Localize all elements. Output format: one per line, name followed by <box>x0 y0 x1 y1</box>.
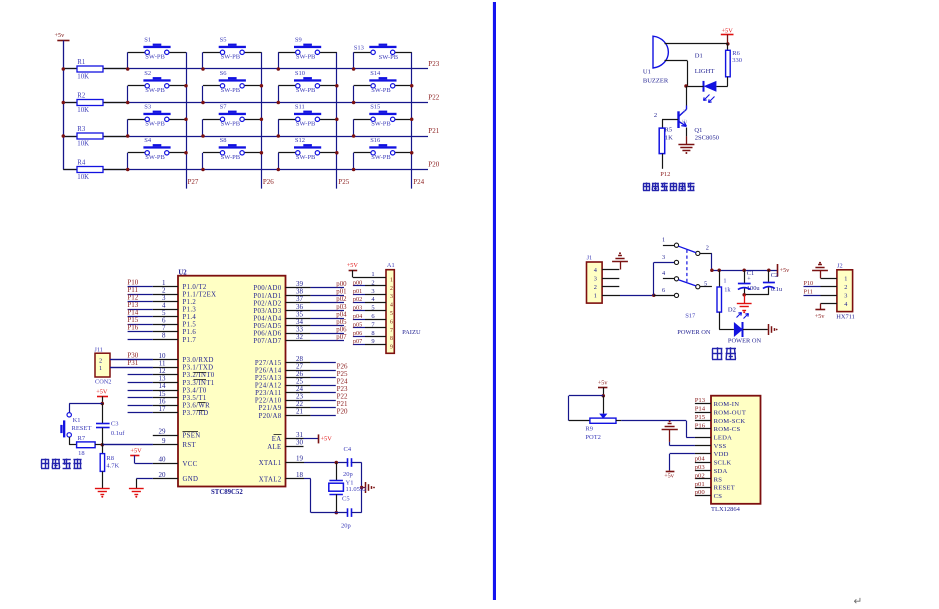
svg-text:SW-PB: SW-PB <box>371 121 391 128</box>
svg-text:S8: S8 <box>220 137 227 144</box>
svg-text:P10: P10 <box>804 280 814 287</box>
svg-text:S6: S6 <box>220 70 228 77</box>
svg-text:1: 1 <box>371 271 374 278</box>
svg-text:↵: ↵ <box>854 596 863 608</box>
svg-text:R1: R1 <box>77 59 85 66</box>
svg-text:C5: C5 <box>342 496 350 503</box>
svg-text:P16: P16 <box>695 422 706 429</box>
svg-text:SW-PB: SW-PB <box>296 54 316 61</box>
svg-text:LIGHT: LIGHT <box>695 68 715 75</box>
svg-text:1k: 1k <box>724 286 731 293</box>
svg-text:R3: R3 <box>77 126 86 133</box>
svg-text:0.1uf: 0.1uf <box>111 430 125 437</box>
svg-text:4.7K: 4.7K <box>106 463 119 470</box>
svg-text:2: 2 <box>594 284 597 291</box>
svg-text:30: 30 <box>296 439 304 447</box>
svg-text:R8: R8 <box>106 455 114 462</box>
svg-text:SW-PB: SW-PB <box>296 87 316 94</box>
svg-text:2: 2 <box>844 284 847 291</box>
svg-text:+5V: +5V <box>96 389 108 396</box>
svg-text:2: 2 <box>706 245 709 252</box>
svg-text:P14: P14 <box>695 406 706 413</box>
svg-text:SW-PB: SW-PB <box>371 87 391 94</box>
svg-text:POWER ON: POWER ON <box>728 338 762 345</box>
svg-text:p00: p00 <box>353 279 362 286</box>
svg-text:P03/AD3: P03/AD3 <box>253 308 281 315</box>
svg-text:p01: p01 <box>336 289 346 296</box>
svg-text:ROM-IN: ROM-IN <box>714 401 740 408</box>
svg-text:CS: CS <box>714 493 723 500</box>
svg-text:GND: GND <box>183 476 199 483</box>
svg-text:P31: P31 <box>127 359 138 367</box>
svg-text:+5V: +5V <box>130 448 142 455</box>
svg-text:21: 21 <box>296 408 304 416</box>
svg-text:ROM-CS: ROM-CS <box>714 426 741 433</box>
svg-text:S12: S12 <box>295 137 305 144</box>
svg-text:p03: p03 <box>695 464 706 471</box>
svg-text:LEDA: LEDA <box>714 435 733 442</box>
svg-text:SW-PB: SW-PB <box>296 154 316 161</box>
svg-text:9: 9 <box>162 437 166 445</box>
svg-text:P13: P13 <box>695 397 706 404</box>
svg-text:p05: p05 <box>336 319 347 326</box>
svg-text:P05/AD5: P05/AD5 <box>253 323 281 330</box>
svg-text:P04/AD4: P04/AD4 <box>253 315 281 322</box>
svg-text:K1: K1 <box>73 417 81 424</box>
svg-text:CON2: CON2 <box>95 378 111 385</box>
svg-text:p07: p07 <box>353 338 362 345</box>
svg-text:R2: R2 <box>77 92 86 99</box>
svg-text:P1.0/T2: P1.0/T2 <box>183 284 207 291</box>
svg-text:R4: R4 <box>77 159 86 166</box>
svg-text:29: 29 <box>159 428 167 436</box>
svg-text:P12: P12 <box>660 171 670 178</box>
svg-text:19: 19 <box>296 455 304 463</box>
svg-text:20: 20 <box>159 471 167 479</box>
svg-text:4: 4 <box>390 303 393 309</box>
svg-text:20p: 20p <box>341 523 351 530</box>
svg-text:P25/A13: P25/A13 <box>255 375 282 382</box>
svg-text:J2: J2 <box>837 263 843 270</box>
svg-text:P20: P20 <box>428 161 439 169</box>
svg-text:S15: S15 <box>370 104 380 111</box>
svg-text:32: 32 <box>296 333 304 341</box>
svg-text:10K: 10K <box>77 73 89 80</box>
svg-text:P06/AD6: P06/AD6 <box>253 331 281 338</box>
svg-text:p02: p02 <box>695 472 705 479</box>
svg-text:S3: S3 <box>144 104 151 111</box>
svg-text:10K: 10K <box>77 174 89 181</box>
svg-text:P23: P23 <box>428 60 439 68</box>
svg-text:J1: J1 <box>587 255 593 262</box>
svg-text:P1.2: P1.2 <box>183 299 197 306</box>
svg-text:3: 3 <box>594 275 597 282</box>
svg-text:HX711: HX711 <box>836 313 855 320</box>
svg-text:SW-PB: SW-PB <box>221 154 241 161</box>
svg-text:1: 1 <box>844 276 847 283</box>
svg-text:S9: S9 <box>295 37 302 44</box>
svg-text:P24: P24 <box>413 178 424 186</box>
svg-text:10K: 10K <box>77 140 89 147</box>
svg-text:Q1: Q1 <box>694 127 702 134</box>
svg-text:+5V: +5V <box>722 28 734 35</box>
svg-text:18: 18 <box>78 450 85 457</box>
svg-text:P11: P11 <box>804 288 813 295</box>
svg-text:S2: S2 <box>144 70 151 77</box>
svg-text:2: 2 <box>371 279 374 286</box>
svg-text:+5v: +5v <box>598 380 609 387</box>
svg-text:P3.2/INT0: P3.2/INT0 <box>183 372 215 379</box>
svg-text:9: 9 <box>390 345 393 351</box>
svg-text:S14: S14 <box>370 70 381 77</box>
svg-text:A1: A1 <box>387 262 395 269</box>
svg-text:S7: S7 <box>220 104 228 111</box>
svg-text:R6: R6 <box>732 50 740 57</box>
svg-text:11.0592: 11.0592 <box>346 486 367 493</box>
svg-text:R5: R5 <box>665 126 673 133</box>
svg-text:2: 2 <box>654 112 657 119</box>
svg-text:C2: C2 <box>771 272 778 279</box>
svg-text:6: 6 <box>390 319 393 325</box>
svg-text:D1: D1 <box>695 53 703 60</box>
svg-text:5: 5 <box>371 305 374 312</box>
svg-text:P27: P27 <box>188 178 199 186</box>
svg-text:SCLK: SCLK <box>714 460 732 467</box>
svg-text:P20/A8: P20/A8 <box>259 413 282 420</box>
svg-text:POT2: POT2 <box>585 434 601 441</box>
svg-text:P26: P26 <box>263 178 274 186</box>
svg-text:P23/A11: P23/A11 <box>255 390 281 397</box>
svg-text:P02/AD2: P02/AD2 <box>253 300 281 307</box>
svg-text:R7: R7 <box>78 435 86 442</box>
svg-text:P00/AD0: P00/AD0 <box>253 285 281 292</box>
svg-text:POWER ON: POWER ON <box>677 329 711 336</box>
svg-text:PAIZU: PAIZU <box>402 329 421 336</box>
svg-text:P1.7: P1.7 <box>183 337 197 344</box>
svg-text:J11: J11 <box>94 346 103 353</box>
svg-text:5: 5 <box>390 311 393 317</box>
svg-text:9: 9 <box>371 338 374 345</box>
svg-text:ALE: ALE <box>267 444 281 451</box>
svg-text:P1.6: P1.6 <box>183 329 197 336</box>
svg-text:7: 7 <box>390 328 393 334</box>
svg-text:P3.6/WR: P3.6/WR <box>183 402 211 409</box>
svg-text:p04: p04 <box>353 313 362 320</box>
svg-text:SW-PB: SW-PB <box>145 54 165 61</box>
svg-text:S4: S4 <box>144 137 152 144</box>
svg-text:RESET: RESET <box>72 425 92 432</box>
svg-text:P15: P15 <box>695 414 706 421</box>
svg-text:p00: p00 <box>336 281 347 288</box>
svg-text:SW-PB: SW-PB <box>221 87 241 94</box>
svg-text:P26/A14: P26/A14 <box>255 367 282 374</box>
svg-text:10K: 10K <box>77 107 89 114</box>
svg-text:ROM-OUT: ROM-OUT <box>714 409 747 416</box>
svg-text:P21: P21 <box>428 127 439 135</box>
svg-text:SW-PB: SW-PB <box>371 154 391 161</box>
svg-text:BUZZER: BUZZER <box>643 77 669 84</box>
svg-text:U1: U1 <box>643 69 651 76</box>
svg-text:(1): (1) <box>682 118 688 123</box>
svg-text:p02: p02 <box>353 296 362 303</box>
svg-text:S11: S11 <box>295 104 305 111</box>
svg-text:R9: R9 <box>585 426 593 433</box>
svg-text:S1: S1 <box>144 37 151 44</box>
svg-text:P3.1/TXD: P3.1/TXD <box>183 365 214 372</box>
svg-text:XTAL1: XTAL1 <box>259 460 282 467</box>
svg-text:p01: p01 <box>353 288 362 295</box>
svg-text:P24/A12: P24/A12 <box>255 383 282 390</box>
svg-text:VSS: VSS <box>714 443 727 450</box>
svg-text:0.1u: 0.1u <box>771 286 783 293</box>
svg-text:2: 2 <box>390 286 393 292</box>
svg-text:P25: P25 <box>338 178 349 186</box>
svg-text:+5V: +5V <box>347 262 359 269</box>
svg-text:P3.7/RD: P3.7/RD <box>183 410 209 417</box>
svg-text:P1.1/T2EX: P1.1/T2EX <box>183 291 217 298</box>
svg-text:1: 1 <box>723 278 726 285</box>
svg-text:SW-PB: SW-PB <box>145 87 165 94</box>
svg-text:1: 1 <box>662 237 665 244</box>
svg-text:+5v: +5v <box>664 473 675 480</box>
svg-text:D2: D2 <box>728 306 736 313</box>
svg-text:p06: p06 <box>353 330 362 337</box>
svg-text:8: 8 <box>390 336 393 342</box>
svg-text:+5v: +5v <box>815 313 826 320</box>
svg-text:S17: S17 <box>685 313 696 320</box>
svg-text:S16: S16 <box>370 137 381 144</box>
svg-text:TLX12864: TLX12864 <box>711 506 741 513</box>
svg-text:p07: p07 <box>336 334 347 341</box>
svg-text:STC89C52: STC89C52 <box>211 489 243 496</box>
svg-text:P27/A15: P27/A15 <box>255 360 282 367</box>
svg-text:P3.0/RXD: P3.0/RXD <box>183 357 214 364</box>
svg-text:3: 3 <box>844 293 847 300</box>
svg-text:P3.3/INT1: P3.3/INT1 <box>183 380 215 387</box>
svg-text:p04: p04 <box>695 456 706 463</box>
svg-text:18: 18 <box>296 471 304 479</box>
svg-text:S13: S13 <box>354 45 364 52</box>
svg-text:SW-PB: SW-PB <box>221 121 241 128</box>
svg-text:p06: p06 <box>336 326 347 333</box>
svg-text:SW-PB: SW-PB <box>145 154 165 161</box>
svg-text:SW-PB: SW-PB <box>145 121 165 128</box>
svg-text:ROM-SCK: ROM-SCK <box>714 418 746 425</box>
svg-text:P1.3: P1.3 <box>183 307 197 314</box>
svg-text:C4: C4 <box>344 446 352 453</box>
svg-text:S10: S10 <box>295 70 305 77</box>
svg-text:17: 17 <box>159 405 167 413</box>
svg-text:+5V: +5V <box>321 435 333 442</box>
svg-text:PSEN: PSEN <box>183 433 201 440</box>
svg-text:8: 8 <box>371 330 374 337</box>
svg-text:100u: 100u <box>747 285 761 292</box>
svg-text:1K: 1K <box>665 134 673 141</box>
svg-text:P21/A9: P21/A9 <box>259 405 282 412</box>
svg-text:P22/A10: P22/A10 <box>255 398 282 405</box>
svg-text:1: 1 <box>594 293 597 300</box>
svg-text:VDD: VDD <box>714 451 729 458</box>
svg-text:SW-PB: SW-PB <box>379 54 399 61</box>
svg-text:P07/AD7: P07/AD7 <box>253 338 281 345</box>
svg-text:+5v: +5v <box>55 32 66 39</box>
svg-text:VCC: VCC <box>183 461 198 468</box>
svg-text:20p: 20p <box>343 471 353 478</box>
svg-text:SW-PB: SW-PB <box>296 121 316 128</box>
svg-text:p01: p01 <box>695 481 705 488</box>
svg-text:40: 40 <box>159 456 167 464</box>
svg-text:P3.5/T1: P3.5/T1 <box>183 395 207 402</box>
svg-text:2: 2 <box>99 357 102 364</box>
svg-text:P1.4: P1.4 <box>183 314 197 321</box>
svg-text:3: 3 <box>662 254 665 261</box>
svg-text:p00: p00 <box>695 489 706 496</box>
svg-text:1: 1 <box>99 365 102 372</box>
svg-text:RS: RS <box>714 476 723 483</box>
svg-text:8: 8 <box>162 332 166 340</box>
svg-text:p02: p02 <box>336 296 347 303</box>
svg-text:3: 3 <box>390 294 393 300</box>
svg-text:P22: P22 <box>428 94 439 102</box>
svg-text:RESET: RESET <box>714 485 735 492</box>
svg-text:p03: p03 <box>336 304 347 311</box>
svg-text:P1.5: P1.5 <box>183 322 197 329</box>
svg-text:SDA: SDA <box>714 468 728 475</box>
svg-text:p05: p05 <box>353 321 362 328</box>
svg-text:P3.4/T0: P3.4/T0 <box>183 387 207 394</box>
svg-text:P16: P16 <box>127 324 138 332</box>
svg-text:p03: p03 <box>353 305 362 312</box>
svg-text:RST: RST <box>183 442 197 449</box>
svg-text:3: 3 <box>371 288 374 295</box>
svg-text:U2: U2 <box>178 269 187 276</box>
svg-text:2SC8050: 2SC8050 <box>695 134 719 141</box>
svg-text:330: 330 <box>732 57 742 64</box>
svg-text:p04: p04 <box>336 311 347 318</box>
svg-text:+5v: +5v <box>780 267 791 274</box>
svg-text:P01/AD1: P01/AD1 <box>253 293 281 300</box>
svg-text:SW-PB: SW-PB <box>221 54 241 61</box>
svg-text:6: 6 <box>662 287 665 294</box>
svg-text:XTAL2: XTAL2 <box>259 476 282 483</box>
svg-text:1: 1 <box>390 277 393 283</box>
svg-text:S5: S5 <box>220 37 227 44</box>
svg-text:EA: EA <box>272 436 282 443</box>
svg-text:C3: C3 <box>111 421 119 428</box>
svg-text:P20: P20 <box>337 408 348 416</box>
